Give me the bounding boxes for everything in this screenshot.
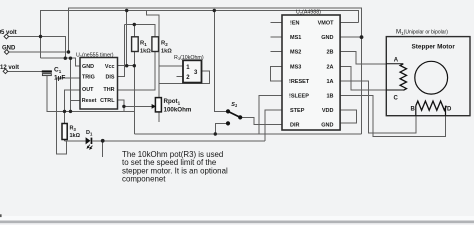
svg-text:1kΩ: 1kΩ bbox=[140, 48, 151, 54]
svg-text:Reset: Reset bbox=[82, 98, 97, 104]
IC U2 A4988 bbox=[282, 10, 340, 131]
wire C1 bottom to W_out bbox=[47, 76, 135, 112]
wire A4988 2A to motor C bbox=[340, 66, 403, 90]
svg-text:B: B bbox=[411, 107, 416, 113]
wire 555 CTRL to pot wiper bbox=[118, 100, 124, 112]
svg-text:2A: 2A bbox=[326, 64, 333, 70]
svg-text:VMOT: VMOT bbox=[318, 21, 335, 27]
node mid rail B bbox=[69, 57, 72, 60]
svg-text:!SLEEP: !SLEEP bbox=[289, 94, 309, 100]
node OUT R3 bbox=[63, 110, 66, 113]
node Vcc R1 bbox=[133, 64, 136, 67]
wire L2 led net bbox=[64, 140, 66, 141]
cut glyph speck bbox=[0, 30, 1, 34]
wire A4988 1A to motor B bbox=[340, 81, 416, 133]
svg-text:OUT: OUT bbox=[82, 87, 94, 93]
svg-text:MS2: MS2 bbox=[290, 50, 301, 56]
node CTRL wiper bbox=[122, 105, 125, 108]
wire A4988 MS2 stub bbox=[271, 51, 283, 53]
trimmer R3 10kOhm box bbox=[174, 55, 204, 83]
switch S1 bbox=[226, 102, 242, 126]
wire pot bottom stub bbox=[158, 112, 160, 122]
wire L2 led right bbox=[92, 140, 265, 142]
svg-text:GND: GND bbox=[82, 64, 94, 70]
connector 5 volt bbox=[1, 30, 17, 39]
wire A4988 SLEEP down bbox=[259, 96, 282, 135]
coil left bbox=[400, 64, 406, 91]
rotor circle bbox=[415, 61, 448, 94]
svg-text:1B: 1B bbox=[326, 94, 333, 100]
svg-text:1kΩ: 1kΩ bbox=[70, 133, 81, 139]
wire 555 TRIG down bbox=[56, 78, 80, 154]
wire GND connector bbox=[9, 51, 69, 53]
wire mid rail to 555 GND pin bbox=[41, 58, 81, 66]
svg-text:12 volt: 12 volt bbox=[0, 65, 19, 71]
wire 555 Vcc stub bbox=[118, 65, 135, 67]
capacitor C1 bbox=[42, 67, 66, 82]
svg-text:MS3: MS3 bbox=[290, 64, 301, 70]
connector 12 volt bbox=[0, 65, 19, 74]
resistor R1 bbox=[132, 37, 152, 55]
LED D1 bbox=[86, 130, 93, 149]
wire 555 THR to R2 bottom bbox=[118, 52, 156, 91]
wire L1 gnd bottom bbox=[134, 133, 361, 135]
wire reset tie bbox=[70, 58, 72, 111]
wire A4988 VMOT stub bbox=[340, 22, 358, 24]
wire 555 OUT to R3 bbox=[65, 90, 81, 123]
svg-text:A: A bbox=[394, 58, 399, 64]
svg-text:GND: GND bbox=[321, 123, 333, 129]
wire A4988 1B to motor D bbox=[340, 96, 445, 137]
node 5V tap bbox=[39, 35, 42, 38]
node reset out bbox=[69, 110, 72, 113]
svg-text:THR: THR bbox=[103, 87, 114, 93]
left edge mark bbox=[0, 214, 2, 217]
resistor R3 (led) bbox=[62, 124, 81, 140]
node R1 top bbox=[133, 23, 136, 26]
wire A4988 MS1 stub bbox=[271, 36, 283, 38]
wire R1 bottom long vertical bbox=[133, 52, 135, 135]
svg-text:STEP: STEP bbox=[290, 108, 305, 114]
svg-text:D1: D1 bbox=[86, 130, 93, 136]
node mid rail A bbox=[64, 57, 67, 60]
svg-text:U1(ne555 timer): U1(ne555 timer) bbox=[76, 53, 114, 59]
svg-text:GND: GND bbox=[2, 46, 16, 52]
wire STEP jog bbox=[265, 110, 282, 141]
wire R3pot pin2 stub bbox=[177, 76, 184, 78]
wire R1 top stem bbox=[133, 25, 135, 37]
node GND tap bbox=[67, 50, 70, 53]
wire S1 pole to DIR bbox=[242, 117, 282, 124]
resistor R2 bbox=[152, 37, 172, 55]
svg-text:Stepper Motor: Stepper Motor bbox=[412, 43, 456, 50]
svg-text:1A: 1A bbox=[326, 79, 333, 85]
svg-text:1µF: 1µF bbox=[54, 75, 65, 82]
svg-text:C: C bbox=[394, 96, 399, 102]
svg-text:M1(Unipolar or bipolar): M1(Unipolar or bipolar) bbox=[396, 29, 448, 36]
wire A4988 VDD loop bbox=[340, 110, 357, 123]
svg-text:R1: R1 bbox=[140, 40, 147, 47]
node Vcc 5V bbox=[125, 64, 128, 67]
potentiometer Rpot1 bbox=[152, 98, 192, 114]
wire GND right vertical bbox=[361, 37, 363, 134]
op-amp style box 555 timer U1 bbox=[76, 53, 118, 110]
svg-text:!EN: !EN bbox=[290, 21, 300, 27]
wire 5V top rail A bbox=[41, 11, 359, 37]
wire GND top rail B bbox=[69, 8, 362, 52]
node S1 5V tap bbox=[213, 9, 216, 12]
node top rail 5V bbox=[125, 9, 128, 12]
wire rail R1 R2 top bbox=[125, 25, 156, 37]
wire 5V drop to Vcc bbox=[126, 11, 128, 66]
svg-text:DIS: DIS bbox=[106, 75, 115, 81]
annotation note bbox=[122, 150, 228, 184]
svg-text:!RESET: !RESET bbox=[289, 79, 310, 85]
svg-text:VDD: VDD bbox=[322, 108, 334, 114]
svg-text:5 volt: 5 volt bbox=[1, 30, 17, 36]
wire 555 Reset stub bbox=[71, 99, 81, 101]
wire pot wiper bbox=[124, 105, 153, 107]
svg-text:Vcc: Vcc bbox=[105, 64, 115, 70]
svg-text:100kOhm: 100kOhm bbox=[164, 107, 192, 114]
svg-text:GND: GND bbox=[321, 35, 333, 41]
svg-text:TRIG: TRIG bbox=[82, 75, 95, 81]
wire R3pot pin1 bbox=[159, 65, 183, 67]
bottom divider bbox=[0, 221, 474, 224]
wire A4988 MS3 RESET bracket bbox=[271, 66, 283, 81]
coil bottom bbox=[416, 101, 447, 110]
wire 5V drop bbox=[40, 37, 42, 59]
wire R3pot pin3 bbox=[159, 71, 210, 84]
svg-text:U2(A4988): U2(A4988) bbox=[296, 10, 321, 16]
svg-text:DIR: DIR bbox=[290, 123, 300, 129]
node GND right bbox=[360, 35, 364, 39]
svg-text:R3(10kOhm): R3(10kOhm) bbox=[174, 55, 204, 61]
wire S1 bottom contact to L1 bbox=[215, 123, 226, 134]
wire 5volt connector bbox=[9, 37, 66, 59]
wire A4988 GND right stub bbox=[340, 36, 361, 38]
node S1 gnd bbox=[214, 132, 217, 135]
wire pot top column to 5V bbox=[147, 11, 159, 98]
wire 12volt connector to C1 bbox=[8, 70, 42, 72]
node LED cathode bbox=[101, 139, 105, 143]
stepper motor M1 bbox=[386, 29, 470, 116]
svg-text:1kΩ: 1kΩ bbox=[161, 48, 172, 54]
svg-text:S1: S1 bbox=[231, 102, 238, 108]
svg-text:componenet: componenet bbox=[122, 175, 166, 184]
svg-text:2B: 2B bbox=[326, 50, 333, 56]
svg-text:MS1: MS1 bbox=[290, 35, 301, 41]
wire 555 DIS to rail bbox=[118, 25, 125, 77]
wire A4988 2B to motor A bbox=[340, 52, 403, 64]
svg-text:CTRL: CTRL bbox=[100, 98, 115, 104]
wire leader stub bbox=[102, 141, 104, 157]
svg-text:D: D bbox=[447, 107, 452, 113]
connector GND bbox=[2, 46, 16, 55]
svg-text:R3: R3 bbox=[70, 126, 77, 132]
wire S1 top tap bbox=[214, 11, 226, 112]
svg-text:R2: R2 bbox=[161, 40, 168, 47]
wire A4988 EN stub bbox=[271, 22, 283, 24]
